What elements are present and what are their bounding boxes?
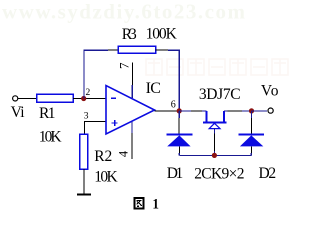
wire feedback left (navy) xyxy=(84,50,108,98)
wire pin 6 output xyxy=(155,110,180,112)
JFET gate arrow xyxy=(209,123,220,128)
wire D1 top lead xyxy=(178,111,180,118)
wire rail JFET to Vo node xyxy=(224,110,227,112)
wire input to R1 xyxy=(18,98,37,100)
wire D1 bottom lead xyxy=(178,146,180,153)
diode D1 xyxy=(166,133,192,135)
resistor R3 xyxy=(118,46,156,53)
JFET gate lead xyxy=(214,129,216,134)
svg-text:4: 4 xyxy=(116,150,130,157)
input terminal Vi xyxy=(13,96,18,101)
resistor R2 xyxy=(80,134,88,169)
svg-text:3: 3 xyxy=(84,112,89,122)
svg-text:7: 7 xyxy=(117,62,132,69)
resistor R1 xyxy=(37,94,74,102)
svg-text:6: 6 xyxy=(171,99,176,110)
svg-text:R3: R3 xyxy=(122,26,137,43)
wire node to output terminal xyxy=(252,110,268,112)
op-amp minus sign xyxy=(111,97,116,99)
svg-text:2CK9×2: 2CK9×2 xyxy=(194,165,244,182)
node junction dot pin6 xyxy=(177,108,182,113)
JFET source lead xyxy=(223,111,225,122)
svg-text:R2: R2 xyxy=(94,148,112,165)
wire R1 to op-amp (pin 2 net) xyxy=(73,98,106,100)
svg-text:Vi: Vi xyxy=(11,104,26,121)
svg-text:1: 1 xyxy=(152,197,159,212)
op-amp pin 4 lead xyxy=(131,122,133,134)
node junction dot gate/rail xyxy=(212,153,217,158)
op-amp pin 7 lead xyxy=(131,62,133,85)
caption CJK glyph (figure) xyxy=(134,198,143,208)
wire op-amp pin 3 net xyxy=(84,121,106,134)
svg-text:10K: 10K xyxy=(39,129,63,146)
svg-text:Vo: Vo xyxy=(261,83,279,100)
wire D2 bottom lead xyxy=(250,146,252,153)
wire bottom rail xyxy=(179,154,251,156)
wire R2 to ground xyxy=(83,169,85,194)
svg-text:D1: D1 xyxy=(167,165,184,182)
svg-text:2: 2 xyxy=(86,88,91,98)
diode D2 xyxy=(239,133,264,135)
JFET channel bar xyxy=(203,121,226,123)
svg-text:D2: D2 xyxy=(259,165,277,182)
ground xyxy=(77,193,91,195)
wire D2 top lead xyxy=(251,111,253,118)
svg-text:100K: 100K xyxy=(146,26,178,43)
svg-text:3DJ7C: 3DJ7C xyxy=(199,86,241,103)
svg-text:IC: IC xyxy=(146,80,161,97)
transistor Q1 3DJ7C JFET drain lead xyxy=(206,111,208,122)
svg-text:www.sydzdiy.6to23.com: www.sydzdiy.6to23.com xyxy=(2,0,246,24)
wire rail pin6 to JFET (navy stub + black) xyxy=(179,110,191,112)
wire R3 left lead xyxy=(108,49,118,51)
svg-text:10K: 10K xyxy=(94,169,118,186)
watermark CJK row xyxy=(146,59,288,75)
op-amp plus sign xyxy=(112,122,118,124)
svg-text:R1: R1 xyxy=(39,105,56,122)
node junction dot A (pin2/feedback) xyxy=(81,96,86,101)
op-amp U1 triangle xyxy=(106,86,155,135)
output terminal Vo xyxy=(268,108,273,113)
wire feedback right (navy) xyxy=(168,50,179,111)
node junction dot Vo xyxy=(249,108,254,113)
wire R3 right lead xyxy=(156,49,169,51)
